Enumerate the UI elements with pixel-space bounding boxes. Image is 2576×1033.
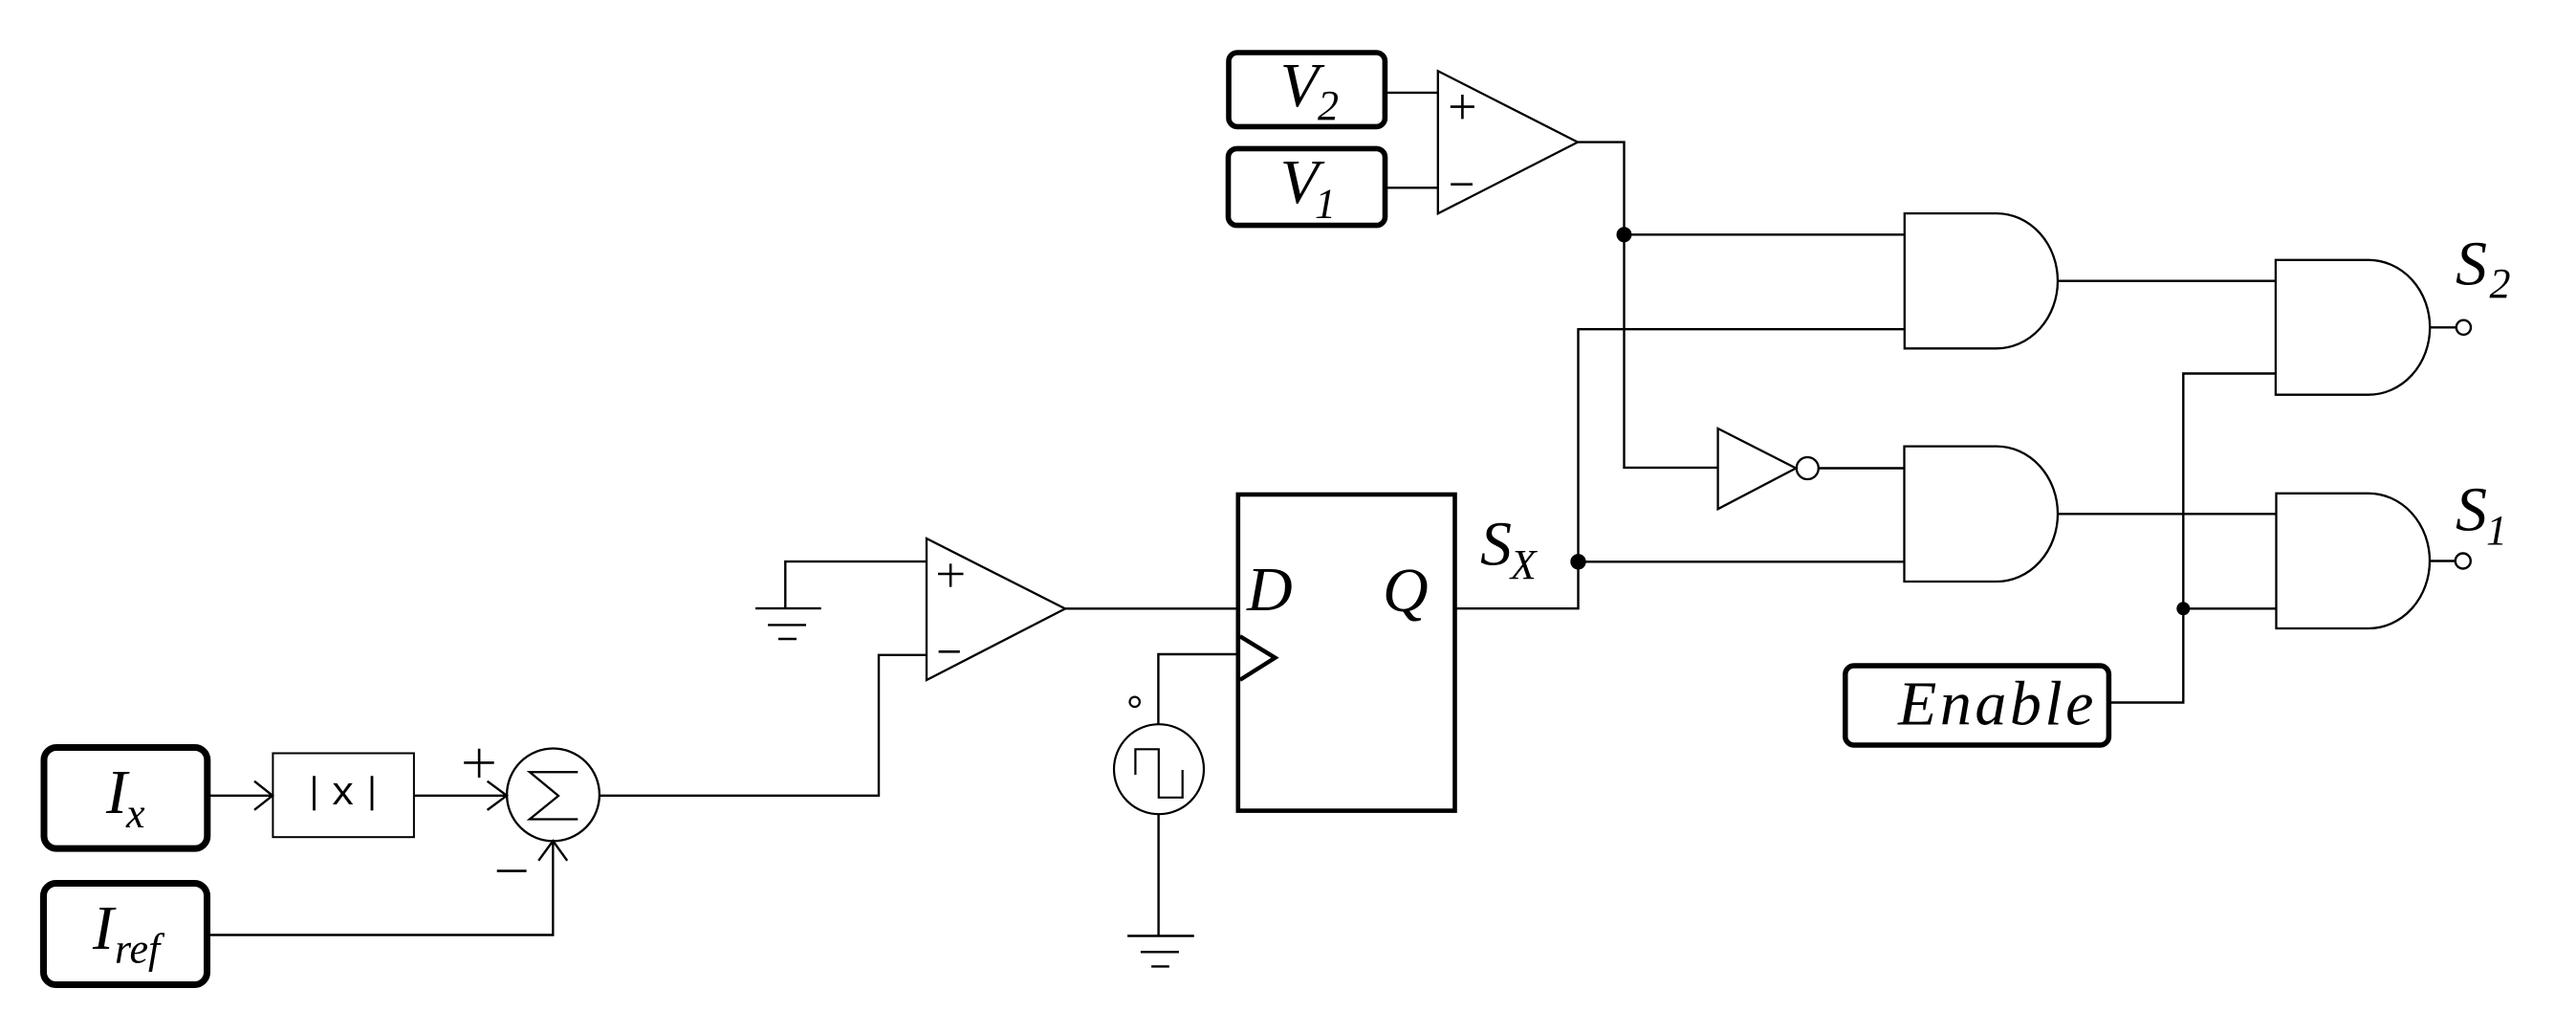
svg-text:S: S xyxy=(1480,510,1512,580)
svg-text:D: D xyxy=(1246,555,1293,625)
svg-text:I: I xyxy=(92,893,117,963)
svg-text:S: S xyxy=(2456,230,2487,299)
svg-text:x: x xyxy=(125,790,145,837)
svg-text:Q: Q xyxy=(1383,556,1429,626)
svg-text:ref: ref xyxy=(115,926,165,973)
svg-text:Enable: Enable xyxy=(1897,670,2097,739)
svg-text:1: 1 xyxy=(1315,180,1336,227)
svg-text:x: x xyxy=(331,771,355,817)
svg-text:2: 2 xyxy=(2490,260,2511,307)
svg-text:X: X xyxy=(1509,541,1539,588)
svg-text:2: 2 xyxy=(1318,82,1339,129)
svg-text:S: S xyxy=(2456,475,2487,545)
svg-text:1: 1 xyxy=(2486,507,2507,554)
